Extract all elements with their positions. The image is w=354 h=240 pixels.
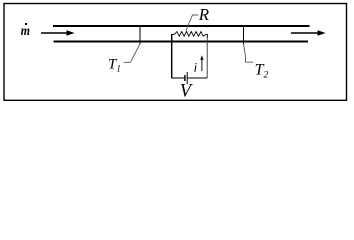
flow arrow left [41, 30, 75, 36]
wire: loop bottom left [172, 77, 185, 79]
svg-text:m: m [21, 24, 30, 39]
leader to T1 [124, 44, 141, 63]
battery V (long positive plate) [186, 72, 188, 84]
svg-text:i: i [194, 60, 198, 75]
node T2 tap wire [243, 26, 245, 44]
flow arrow right [291, 30, 326, 36]
wire: loop right vertical [206, 34, 208, 78]
leader to R [186, 15, 198, 31]
leader to T2 [244, 44, 254, 62]
wire: duct top line [53, 25, 310, 27]
current arrow i (up) [200, 55, 203, 71]
wire: loop bottom right [187, 77, 207, 79]
wire: loop left vertical [171, 34, 173, 78]
resistor R (heating element) [172, 31, 208, 38]
node T1 tap wire [139, 26, 141, 44]
wire: duct bottom line [54, 41, 309, 43]
battery V (short negative plate) [184, 75, 186, 81]
border frame [4, 4, 347, 101]
svg-text:R: R [198, 5, 210, 24]
